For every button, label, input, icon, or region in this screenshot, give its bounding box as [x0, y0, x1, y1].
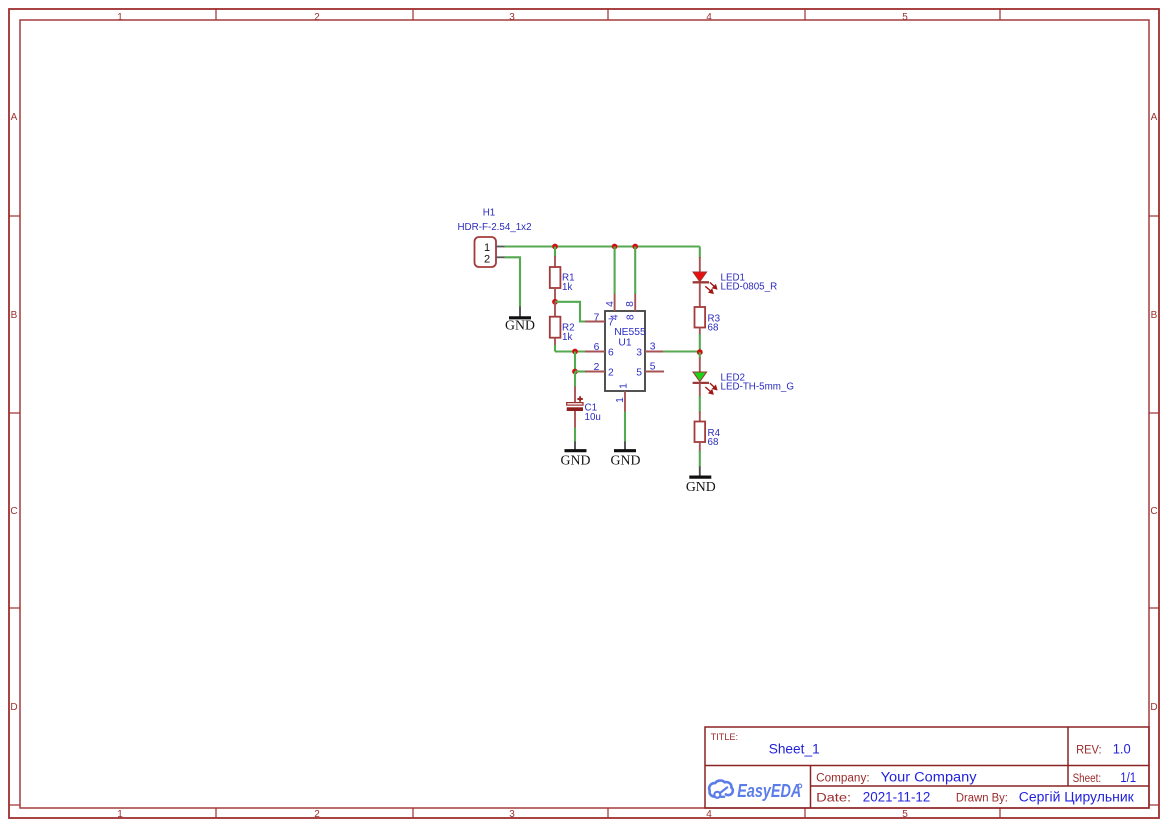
svg-text:8: 8 [625, 301, 636, 307]
svg-text:D: D [10, 702, 17, 713]
junction (rail/pin4) [612, 244, 618, 250]
svg-text:4: 4 [706, 809, 712, 820]
svg-text:4: 4 [706, 12, 712, 23]
U1 pin 7 [585, 312, 614, 328]
junction (rail/pin8) [632, 244, 638, 250]
svg-text:GND: GND [505, 318, 535, 333]
svg-text:4: 4 [609, 314, 620, 320]
junction (pin3/LED2) [697, 349, 703, 355]
svg-text:Drawn By:: Drawn By: [956, 792, 1008, 804]
wire pin4 up [614, 247, 616, 295]
U1 pin 2 [585, 362, 614, 379]
svg-text:3: 3 [650, 342, 656, 353]
svg-text:1: 1 [615, 397, 626, 403]
svg-text:2: 2 [314, 12, 320, 23]
svg-text:1: 1 [618, 383, 629, 389]
svg-text:2021-11-12: 2021-11-12 [863, 789, 931, 804]
diode LED2 [693, 352, 717, 412]
svg-text:5: 5 [650, 362, 656, 373]
svg-text:TITLE:: TITLE: [711, 732, 739, 743]
svg-text:8: 8 [626, 314, 637, 320]
wire to pin2 [575, 370, 586, 372]
svg-text:Company:: Company: [816, 772, 870, 784]
title block [705, 727, 1149, 808]
svg-text:6: 6 [608, 348, 614, 359]
svg-text:1/1: 1/1 [1120, 770, 1136, 785]
svg-text:Сергій Цирульник: Сергій Цирульник [1019, 789, 1134, 804]
svg-text:GND: GND [561, 453, 591, 468]
U1 pin 6 [585, 342, 614, 359]
junction (pin6/pin2 branch) [572, 349, 578, 355]
wire node to pin7 [555, 302, 586, 322]
svg-text:REV:: REV: [1076, 745, 1102, 757]
U1 pin 3 [636, 342, 664, 359]
wire pin3 to LED branch [663, 350, 700, 352]
wire VCC rail [505, 245, 700, 247]
connector H1 [475, 237, 505, 267]
svg-text:Date:: Date: [816, 792, 851, 804]
svg-text:H1: H1 [483, 208, 496, 219]
U1 pin 4 [605, 293, 620, 320]
wire branch down [574, 352, 576, 372]
wire H1 pin2 to GND [505, 257, 521, 307]
U1 pin 5 [636, 362, 664, 379]
resistor R1 [550, 247, 561, 302]
U1 pin 1 [615, 383, 630, 412]
svg-text:1k: 1k [562, 332, 572, 343]
junction (R1/R2/pin7) [552, 299, 558, 305]
svg-text:1: 1 [484, 242, 490, 254]
svg-text:U1: U1 [618, 338, 631, 349]
wire rail corner down [699, 247, 701, 259]
svg-text:A: A [1151, 112, 1158, 123]
svg-text:4: 4 [605, 301, 616, 307]
U1 pin 8 [625, 293, 636, 320]
junction (rail/R1) [552, 244, 558, 250]
svg-text:C: C [1150, 506, 1157, 517]
svg-text:Your Company: Your Company [881, 769, 977, 784]
svg-text:2: 2 [484, 253, 490, 265]
ground GND (H1) [505, 307, 535, 333]
svg-text:6: 6 [594, 342, 600, 353]
wire R2 to pin6 [555, 350, 586, 352]
svg-text:2: 2 [608, 368, 614, 379]
resistor R4 [695, 412, 706, 468]
svg-text:1: 1 [117, 809, 123, 820]
svg-text:D: D [1150, 702, 1157, 713]
ground GND (C1) [561, 442, 591, 468]
svg-text:GND: GND [686, 479, 716, 494]
svg-text:NE555: NE555 [614, 327, 646, 338]
svg-text:3: 3 [636, 348, 642, 359]
svg-text:1k: 1k [562, 282, 572, 293]
svg-text:68: 68 [708, 323, 719, 334]
svg-text:Sheet_1: Sheet_1 [769, 741, 820, 757]
junction (pin2/C1) [572, 369, 578, 375]
resistor R2 [550, 302, 561, 352]
svg-text:2: 2 [594, 362, 600, 373]
ground GND (U1) [611, 442, 641, 468]
svg-text:5: 5 [902, 12, 908, 23]
svg-text:HDR-F-2.54_1x2: HDR-F-2.54_1x2 [457, 222, 531, 233]
svg-text:Sheet:: Sheet: [1073, 773, 1102, 785]
svg-text:3: 3 [509, 809, 515, 820]
resistor R3 [695, 307, 706, 352]
svg-text:7: 7 [594, 312, 600, 323]
svg-text:10u: 10u [585, 412, 601, 423]
svg-text:LED-TH-5mm_G: LED-TH-5mm_G [721, 382, 794, 393]
svg-text:A: A [11, 112, 18, 123]
wire pin1 to GND [624, 412, 626, 443]
op-amp U1 NE555 [605, 311, 646, 391]
EasyEDA logo [709, 780, 802, 801]
svg-text:1.0: 1.0 [1113, 742, 1131, 757]
ground GND (R4) [686, 467, 716, 495]
svg-text:68: 68 [708, 437, 719, 448]
wire down to C1 [574, 372, 576, 388]
capacitor C1 [567, 387, 583, 443]
svg-text:1: 1 [117, 12, 123, 23]
svg-text:5: 5 [902, 809, 908, 820]
wire pin8 up [634, 247, 636, 295]
svg-text:C: C [10, 506, 17, 517]
svg-text:GND: GND [611, 453, 641, 468]
svg-text:5: 5 [636, 368, 642, 379]
svg-text:B: B [1151, 310, 1158, 321]
svg-text:2: 2 [314, 809, 320, 820]
svg-text:3: 3 [509, 12, 515, 23]
svg-text:B: B [11, 310, 18, 321]
diode LED1 [693, 257, 717, 308]
svg-text:EasyEDA: EasyEDA [737, 780, 801, 801]
svg-text:LED-0805_R: LED-0805_R [721, 282, 778, 293]
